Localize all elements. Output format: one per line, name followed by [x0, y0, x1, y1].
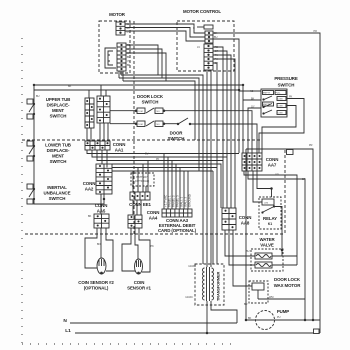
- svg-text:AA5: AA5: [97, 209, 106, 214]
- svg-text:GY: GY: [251, 106, 255, 109]
- motor dashed enclosure: [99, 21, 130, 73]
- svg-text:EMPTY: EMPTY: [263, 93, 271, 95]
- svg-text:AA4: AA4: [149, 216, 158, 221]
- wire conn AA7 to relay coil: [253, 171, 262, 202]
- svg-text:BK: BK: [88, 215, 92, 218]
- conn EE1: [130, 192, 150, 200]
- svg-text:AB: AB: [250, 90, 254, 93]
- wire pressure switch input 2: [239, 90, 261, 92]
- wire pressure switch output loop 2: [262, 106, 296, 154]
- lower tub displacement switch S2: [27, 141, 35, 161]
- svg-text:SWITCH: SWITCH: [278, 83, 295, 88]
- svg-text:FULL: FULL: [276, 93, 282, 95]
- compartment dashed line horizontal upper: [22, 139, 262, 141]
- svg-text:GROUND: GROUND: [188, 194, 192, 207]
- svg-text:WM: WM: [269, 296, 273, 299]
- compartment dashed line horizontal lower: [25, 233, 285, 235]
- transformer T1 dashed box: [195, 264, 224, 305]
- pressure switch box: [261, 89, 287, 117]
- wire bus y153.5: [87, 150, 239, 154]
- relay common terminal: [271, 188, 273, 190]
- wire conn AA2 down to conn AA5: [100, 194, 102, 214]
- svg-text:RD: RD: [215, 46, 219, 49]
- svg-text:BU: BU: [246, 250, 250, 253]
- coin sensor 2 body: [85, 228, 113, 274]
- wire pressure switch input 3: [248, 108, 261, 153]
- wire bus y160.5: [97, 150, 223, 161]
- terminal block 1A: [287, 150, 294, 155]
- svg-text:OR: OR: [127, 52, 131, 55]
- svg-text:NO: NO: [157, 111, 161, 113]
- svg-text:BK: BK: [214, 32, 218, 35]
- water valve dashed box: [251, 249, 283, 271]
- wire bus y157: [92, 150, 227, 157]
- svg-text:AA8: AA8: [241, 221, 250, 226]
- wire motor pin to bus y75: [126, 45, 158, 75]
- wire bus y81: [123, 81, 195, 140]
- svg-text:EMPTY: EMPTY: [263, 104, 271, 106]
- svg-text:SWITCH: SWITCH: [142, 100, 159, 105]
- wire transformer secondary to L1: [206, 301, 208, 333]
- svg-text:DISPLACE-: DISPLACE-: [47, 103, 70, 108]
- wire door lock row2 to door switch: [164, 123, 177, 125]
- wire motor to motor control 1: [125, 24, 205, 33]
- svg-text:AA7: AA7: [268, 163, 277, 168]
- compartment dashed line vertical: [133, 21, 135, 234]
- svg-text:BU: BU: [145, 153, 149, 156]
- wire bus y75: [121, 75, 203, 264]
- wire motor pin to bus y78: [126, 49, 162, 78]
- wire J4 pin down to transformer 1: [206, 70, 208, 267]
- conn AA5: [94, 214, 109, 228]
- svg-text:PRESSURE: PRESSURE: [274, 76, 298, 81]
- cabinet left dotted border: [21, 38, 23, 344]
- water valve solenoid hot: [255, 262, 272, 268]
- svg-text:PK: PK: [215, 58, 219, 61]
- door lock connector block B: [97, 96, 110, 123]
- svg-text:AA2: AA2: [85, 187, 94, 192]
- svg-text:DOOR LOCK: DOOR LOCK: [274, 277, 301, 282]
- wire N line: [70, 322, 237, 324]
- svg-text:COM: COM: [278, 99, 283, 101]
- pump P1: [256, 311, 275, 330]
- svg-text:CONN EE1: CONN EE1: [129, 202, 151, 207]
- svg-text:UPPER TUB: UPPER TUB: [46, 97, 70, 102]
- conn AA3: [162, 209, 192, 217]
- upper tub displacement switch S1: [27, 99, 35, 119]
- svg-text:PK: PK: [156, 158, 160, 161]
- wire block B to door lock row1: [110, 110, 135, 112]
- conn AA1: [85, 141, 110, 150]
- svg-text:PK: PK: [151, 245, 155, 248]
- water valve solenoid cold: [255, 253, 272, 259]
- wire wax motor right: [258, 298, 305, 300]
- wire long bus y90 to pressure switch: [34, 89, 239, 91]
- svg-text:TRANSFORMER: TRANSFORMER: [216, 272, 221, 301]
- svg-text:TN: TN: [215, 54, 219, 57]
- door switch DS1: [177, 118, 191, 125]
- svg-text:CONN: CONN: [113, 142, 126, 147]
- svg-text:C: C: [193, 27, 195, 30]
- inertial unbalance switch S3: [27, 184, 35, 204]
- svg-text:SWITCH: SWITCH: [50, 114, 67, 119]
- wire J4 pin 1 down to conn AA8: [213, 47, 223, 208]
- svg-text:BATTERY: BATTERY: [136, 176, 148, 179]
- svg-text:CONN: CONN: [95, 203, 108, 208]
- svg-text:UNBALANCE: UNBALANCE: [44, 191, 71, 196]
- door lock switch DL1: [135, 108, 165, 127]
- motor control dashed enclosure: [177, 21, 234, 71]
- connector J4: [204, 44, 213, 70]
- wire J4 pin 4 down to conn AA8: [213, 59, 235, 208]
- svg-text:BR: BR: [244, 303, 248, 306]
- wire conn AA7 to pump right bus: [248, 171, 305, 320]
- svg-text:MOTOR: MOTOR: [109, 12, 126, 17]
- svg-text:DOOR: DOOR: [170, 131, 184, 136]
- svg-text:BR: BR: [302, 178, 306, 181]
- wire solenoid hot right: [272, 264, 297, 266]
- svg-text:(OPTIONAL): (OPTIONAL): [135, 180, 149, 183]
- wire motor to motor control 3: [125, 31, 205, 41]
- wire loop top y149: [246, 149, 313, 320]
- svg-text:CONN: CONN: [147, 210, 160, 215]
- svg-text:SENSOR #1: SENSOR #1: [127, 286, 151, 291]
- wire wax motor left feed: [233, 230, 252, 286]
- wire J4 pin down to transformer 2: [210, 70, 212, 267]
- wire pressure switch input 1: [243, 99, 261, 101]
- conn AA4: [128, 215, 142, 228]
- svg-text:GY: GY: [215, 62, 219, 65]
- svg-text:BU: BU: [127, 56, 131, 59]
- svg-text:SWITCH: SWITCH: [49, 196, 66, 201]
- relay coil: [262, 199, 274, 205]
- svg-text:SWITCH: SWITCH: [50, 159, 67, 164]
- wire block B to door lock row2: [110, 123, 135, 125]
- terminal box L1: [314, 329, 320, 334]
- svg-text:L1M: L1M: [264, 203, 268, 205]
- transformer right winding: [212, 268, 214, 300]
- wire bus y78: [119, 78, 199, 171]
- conn AA7: [242, 153, 262, 171]
- svg-text:WAX MOTOR: WAX MOTOR: [274, 283, 302, 288]
- wire conn AA2 down left chain: [103, 194, 105, 199]
- svg-text:LOWER TUB: LOWER TUB: [45, 143, 71, 148]
- wire transformer secondary to N: [211, 301, 237, 323]
- wire pump right: [275, 319, 321, 321]
- wire solenoid cold right: [272, 255, 297, 257]
- svg-text:BU: BU: [214, 36, 218, 39]
- svg-text:RELAY: RELAY: [263, 216, 277, 221]
- svg-text:COM: COM: [278, 113, 283, 115]
- svg-text:PR: PR: [314, 30, 318, 33]
- transformer left winding: [203, 268, 205, 300]
- wire motor to motor control 2: [125, 28, 205, 38]
- wires conn EE1 up to bus: [133, 161, 148, 193]
- wire conn AA8 to solenoid cold: [225, 230, 255, 256]
- wire motor control to pressure area: [213, 39, 239, 153]
- wire door lock row1 to conn AA7: [164, 111, 252, 153]
- svg-text:WH: WH: [127, 23, 131, 26]
- svg-text:(OPTIONAL): (OPTIONAL): [84, 286, 109, 291]
- svg-text:CONN: CONN: [239, 215, 252, 220]
- motor control upper connector: [205, 31, 213, 43]
- wire long bus y85 to pressure switch: [34, 85, 243, 153]
- wire J4 pin 2 down to conn AA8: [213, 51, 227, 208]
- relay K1 dashed box: [259, 197, 281, 229]
- svg-text:MENT: MENT: [52, 154, 64, 159]
- transformer core bars: [207, 267, 210, 301]
- wire motor lower pins down: [119, 71, 123, 81]
- wire bus y171: [112, 170, 213, 172]
- svg-text:VALVE: VALVE: [260, 243, 274, 248]
- svg-text:COM: COM: [138, 124, 143, 126]
- wire conn AA7 to water valve right bus: [244, 171, 297, 265]
- wires connector blocks down to conn AA1: [87, 123, 108, 141]
- wire bus y167.5: [107, 150, 217, 168]
- svg-text:CONN: CONN: [83, 181, 96, 186]
- svg-text:SWITCH: SWITCH: [168, 136, 185, 141]
- motor winding symbol: [105, 48, 116, 68]
- wire motor pin to bus y81: [126, 53, 166, 81]
- wire tub switch chain: [34, 85, 104, 204]
- svg-text:PU: PU: [277, 316, 281, 319]
- svg-text:PR: PR: [309, 144, 313, 147]
- svg-text:BU: BU: [36, 95, 40, 98]
- door lock wax motor dashed box: [249, 281, 268, 303]
- svg-text:BK: BK: [68, 85, 72, 88]
- capacitor C: [197, 26, 204, 28]
- svg-text:BN: BN: [97, 243, 101, 246]
- svg-text:PK: PK: [289, 96, 293, 99]
- wires battery to conn EE1: [138, 186, 146, 192]
- svg-text:BK: BK: [251, 98, 255, 101]
- svg-text:RD: RD: [127, 44, 131, 47]
- wire L1 line: [75, 332, 320, 334]
- door lock connector block A: [85, 98, 94, 128]
- conn AA2: [96, 164, 112, 194]
- coin sensor 1 body: [122, 228, 150, 274]
- junction dots: [206, 332, 208, 334]
- wire top right outer: [213, 33, 320, 333]
- conn AA8: [222, 208, 236, 230]
- svg-text:OR: OR: [275, 174, 279, 177]
- svg-text:K1: K1: [268, 222, 272, 226]
- svg-text:NO: NO: [157, 124, 161, 126]
- wire door switch to conn AA7: [190, 124, 257, 153]
- svg-text:DISPLACE-: DISPLACE-: [47, 148, 70, 153]
- cabinet bottom dotted border: [22, 343, 235, 345]
- svg-text:COM: COM: [278, 106, 283, 108]
- svg-text:WH: WH: [127, 48, 131, 51]
- wire J4 pin 5 down to transformer: [213, 63, 217, 264]
- svg-text:12VAC: 12VAC: [185, 296, 193, 299]
- wire bus to transformer: [212, 171, 214, 264]
- wire relay contact to valve: [274, 207, 282, 257]
- svg-text:MOTOR CONTROL: MOTOR CONTROL: [183, 9, 221, 14]
- wire J4 pin 3 down to conn AA8: [213, 55, 231, 208]
- svg-text:COM: COM: [138, 111, 143, 113]
- wires connector blocks up to bus: [89, 85, 106, 98]
- wire conn AA7 to relay common: [257, 171, 271, 189]
- motor connector main pins: [117, 43, 126, 71]
- wires conn AA3 up to bus: [164, 154, 188, 210]
- svg-text:COIN: COIN: [134, 280, 145, 285]
- svg-text:COIN SENSOR #2: COIN SENSOR #2: [78, 280, 114, 285]
- motor connector upper pins: [116, 22, 125, 35]
- svg-text:BK: BK: [127, 64, 131, 67]
- svg-text:PUMP: PUMP: [277, 309, 289, 314]
- compartment dashed line vertical right: [284, 150, 286, 234]
- svg-text:INERTIAL: INERTIAL: [47, 185, 67, 190]
- svg-text:WATER: WATER: [259, 237, 275, 242]
- wire bus y164: [102, 150, 221, 208]
- svg-text:CONN: CONN: [266, 157, 279, 162]
- svg-text:12VAC: 12VAC: [188, 265, 196, 268]
- svg-text:AA1: AA1: [115, 148, 124, 153]
- svg-text:CARD (OPTIONAL): CARD (OPTIONAL): [158, 228, 197, 233]
- svg-text:MENT: MENT: [52, 108, 64, 113]
- svg-text:OR: OR: [215, 50, 219, 53]
- svg-text:BK: BK: [248, 317, 252, 320]
- wire pressure switch output loop 1: [259, 99, 304, 154]
- wax motor element: [252, 283, 264, 290]
- svg-text:L1: L1: [65, 328, 71, 334]
- battery optional dashed box: [131, 173, 154, 186]
- wire right feeder to pump: [246, 149, 256, 320]
- svg-text:DOOR LOCK: DOOR LOCK: [137, 94, 164, 99]
- relay contact: [263, 207, 273, 212]
- svg-text:BU: BU: [127, 31, 131, 34]
- wire conn AA8 to solenoid hot: [229, 230, 255, 265]
- wires conn EE1 down to conn AA4: [133, 200, 141, 215]
